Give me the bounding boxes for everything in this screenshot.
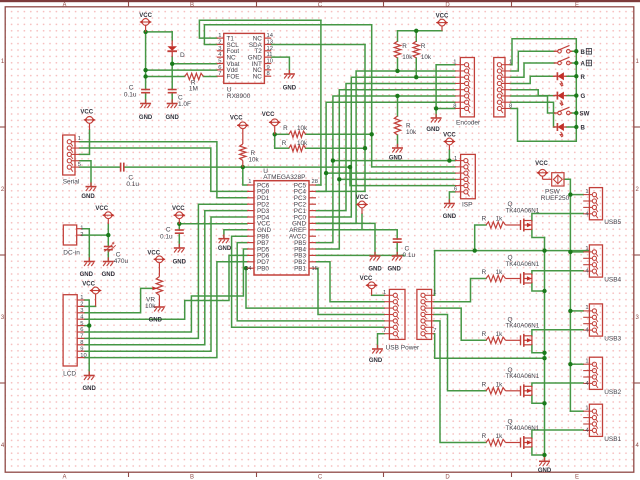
svg-text:0.1u: 0.1u — [403, 252, 416, 259]
svg-text:R: R — [283, 125, 288, 132]
svg-text:D: D — [180, 52, 185, 59]
svg-text:ATMEGA328P: ATMEGA328P — [263, 174, 305, 181]
svg-text:GND: GND — [443, 214, 457, 220]
svg-text:A: A — [62, 475, 66, 480]
svg-text:R: R — [402, 43, 407, 50]
svg-text:C: C — [166, 226, 171, 233]
svg-text:10: 10 — [80, 353, 86, 359]
svg-text:1k: 1k — [496, 381, 504, 388]
svg-text:2: 2 — [218, 39, 221, 45]
svg-text:6: 6 — [218, 65, 221, 71]
svg-text:12: 12 — [267, 46, 273, 52]
svg-text:14: 14 — [267, 33, 274, 39]
svg-text:470u: 470u — [114, 258, 129, 265]
svg-text:1: 1 — [218, 33, 221, 39]
svg-text:10k: 10k — [406, 129, 417, 136]
svg-text:TK40A06N1: TK40A06N1 — [506, 323, 540, 330]
svg-text:1k: 1k — [496, 269, 504, 276]
svg-text:0.1u: 0.1u — [126, 181, 139, 188]
svg-text:VCC: VCC — [82, 281, 95, 287]
svg-text:B: B — [581, 125, 586, 132]
svg-text:1: 1 — [80, 295, 83, 301]
svg-text:TK40A06N1: TK40A06N1 — [506, 373, 540, 380]
svg-text:GND: GND — [388, 267, 402, 273]
svg-text:VCC: VCC — [443, 133, 456, 139]
svg-text:GND: GND — [149, 318, 163, 324]
svg-text:GND: GND — [389, 156, 403, 162]
svg-text:B: B — [190, 2, 194, 8]
svg-text:VCC: VCC — [262, 112, 275, 118]
svg-text:10k: 10k — [297, 140, 308, 147]
svg-text:2: 2 — [80, 232, 83, 238]
svg-text:C: C — [318, 2, 323, 8]
svg-text:Serial: Serial — [63, 179, 80, 186]
svg-text:R: R — [482, 331, 487, 338]
svg-text:28: 28 — [312, 179, 318, 185]
svg-text:GND: GND — [426, 127, 440, 133]
svg-text:GND: GND — [166, 115, 180, 121]
svg-text:VCC: VCC — [147, 250, 160, 256]
svg-text:VCC: VCC — [360, 276, 373, 282]
svg-text:TK40A06N1: TK40A06N1 — [506, 261, 540, 268]
svg-text:TK40A06N1: TK40A06N1 — [506, 425, 540, 432]
svg-text:GND: GND — [173, 260, 187, 266]
svg-text:GND: GND — [83, 386, 97, 392]
svg-text:VCC: VCC — [535, 161, 548, 167]
svg-text:PB1: PB1 — [294, 266, 306, 273]
svg-text:USB5: USB5 — [604, 219, 621, 226]
svg-text:R: R — [482, 216, 487, 223]
svg-text:1: 1 — [454, 156, 457, 162]
svg-text:R: R — [581, 74, 586, 81]
svg-text:E: E — [575, 2, 579, 8]
svg-text:GND: GND — [81, 194, 95, 200]
svg-text:GND: GND — [102, 272, 116, 278]
svg-text:7: 7 — [218, 71, 221, 77]
svg-text:VCC: VCC — [436, 14, 449, 20]
svg-text:1k: 1k — [496, 216, 504, 223]
svg-text:B: B — [581, 49, 586, 56]
svg-text:USB2: USB2 — [604, 389, 621, 396]
svg-text:7: 7 — [80, 334, 83, 340]
svg-text:10k: 10k — [249, 157, 260, 164]
svg-text:1: 1 — [78, 136, 81, 142]
svg-text:10: 10 — [267, 59, 273, 65]
svg-text:1: 1 — [585, 405, 588, 411]
svg-text:8: 8 — [453, 104, 456, 110]
svg-text:1: 1 — [80, 225, 83, 231]
svg-text:USB3: USB3 — [604, 336, 621, 343]
svg-text:NC: NC — [253, 74, 263, 81]
svg-text:13: 13 — [267, 39, 273, 45]
svg-text:7: 7 — [433, 328, 436, 334]
svg-text:7: 7 — [383, 328, 386, 334]
svg-text:1: 1 — [585, 358, 588, 364]
svg-text:5: 5 — [78, 162, 81, 168]
svg-text:10k: 10k — [421, 54, 432, 61]
svg-text:10k: 10k — [145, 303, 156, 310]
svg-text:5: 5 — [218, 59, 221, 65]
svg-text:8: 8 — [267, 71, 270, 77]
svg-text:USB1: USB1 — [604, 436, 621, 443]
svg-text:1M: 1M — [189, 86, 198, 93]
svg-text:C: C — [318, 475, 323, 480]
svg-text:1: 1 — [585, 305, 588, 311]
svg-text:0.1u: 0.1u — [160, 234, 173, 241]
svg-text:1: 1 — [248, 179, 251, 185]
svg-text:3: 3 — [218, 46, 221, 52]
svg-text:Encoder: Encoder — [456, 120, 481, 127]
svg-text:B: B — [190, 475, 194, 480]
svg-text:GND: GND — [369, 358, 383, 364]
svg-text:A: A — [62, 2, 66, 8]
svg-text:1: 1 — [585, 246, 588, 252]
svg-text:3: 3 — [80, 308, 83, 314]
svg-text:9: 9 — [267, 65, 270, 71]
svg-text:8: 8 — [509, 104, 512, 110]
svg-text:8: 8 — [80, 340, 83, 346]
svg-text:D: D — [445, 2, 450, 8]
svg-text:0.1u: 0.1u — [124, 92, 137, 99]
svg-text:14: 14 — [245, 266, 252, 272]
svg-text:GND: GND — [139, 115, 153, 121]
svg-text:RUEF250: RUEF250 — [541, 195, 570, 202]
svg-text:VCC: VCC — [230, 116, 243, 122]
svg-text:VCC: VCC — [95, 206, 108, 212]
svg-text:USB4: USB4 — [604, 277, 621, 284]
svg-text:E: E — [575, 475, 579, 480]
svg-text:R: R — [282, 140, 287, 147]
svg-text:SW: SW — [580, 111, 590, 118]
svg-text:10k: 10k — [402, 54, 413, 61]
svg-text:11: 11 — [267, 52, 273, 58]
svg-text:TK40A06N1: TK40A06N1 — [506, 207, 540, 214]
svg-text:1: 1 — [585, 189, 588, 195]
svg-text:LCD: LCD — [63, 371, 76, 378]
svg-text:5: 5 — [80, 321, 83, 327]
svg-text:R: R — [482, 433, 487, 440]
svg-text:R: R — [482, 269, 487, 276]
svg-text:RX8900: RX8900 — [227, 93, 251, 100]
svg-text:VCC: VCC — [356, 195, 369, 201]
svg-text:6: 6 — [454, 187, 457, 193]
svg-text:GND: GND — [283, 86, 297, 92]
svg-text:ISP: ISP — [462, 202, 472, 209]
svg-text:G: G — [581, 93, 586, 100]
svg-text:9: 9 — [80, 346, 83, 352]
svg-text:R: R — [482, 381, 487, 388]
svg-text:FOE: FOE — [227, 74, 240, 81]
svg-text:USB Power: USB Power — [386, 345, 420, 352]
svg-text:1k: 1k — [496, 331, 504, 338]
svg-text:1.0F: 1.0F — [178, 101, 191, 108]
svg-text:VCC: VCC — [139, 13, 152, 19]
svg-text:1: 1 — [509, 60, 512, 66]
svg-text:1: 1 — [383, 290, 386, 296]
svg-text:PB0: PB0 — [257, 266, 269, 273]
svg-text:10k: 10k — [297, 125, 308, 132]
svg-text:2: 2 — [80, 302, 83, 308]
svg-text:GND: GND — [538, 468, 552, 474]
svg-text:VCC: VCC — [80, 110, 93, 116]
svg-text:GND: GND — [80, 272, 94, 278]
svg-text:GND: GND — [218, 246, 232, 252]
svg-text:R: R — [421, 43, 426, 50]
svg-text:6: 6 — [80, 327, 83, 333]
svg-text:1k: 1k — [496, 433, 504, 440]
svg-text:DC-in: DC-in — [63, 249, 80, 256]
svg-text:15: 15 — [312, 266, 318, 272]
svg-text:GND: GND — [368, 267, 382, 273]
svg-text:A: A — [581, 61, 586, 68]
svg-text:1: 1 — [433, 290, 436, 296]
svg-text:1: 1 — [453, 60, 456, 66]
svg-text:VCC: VCC — [172, 206, 185, 212]
svg-text:D: D — [445, 475, 450, 480]
svg-text:C: C — [129, 85, 134, 92]
